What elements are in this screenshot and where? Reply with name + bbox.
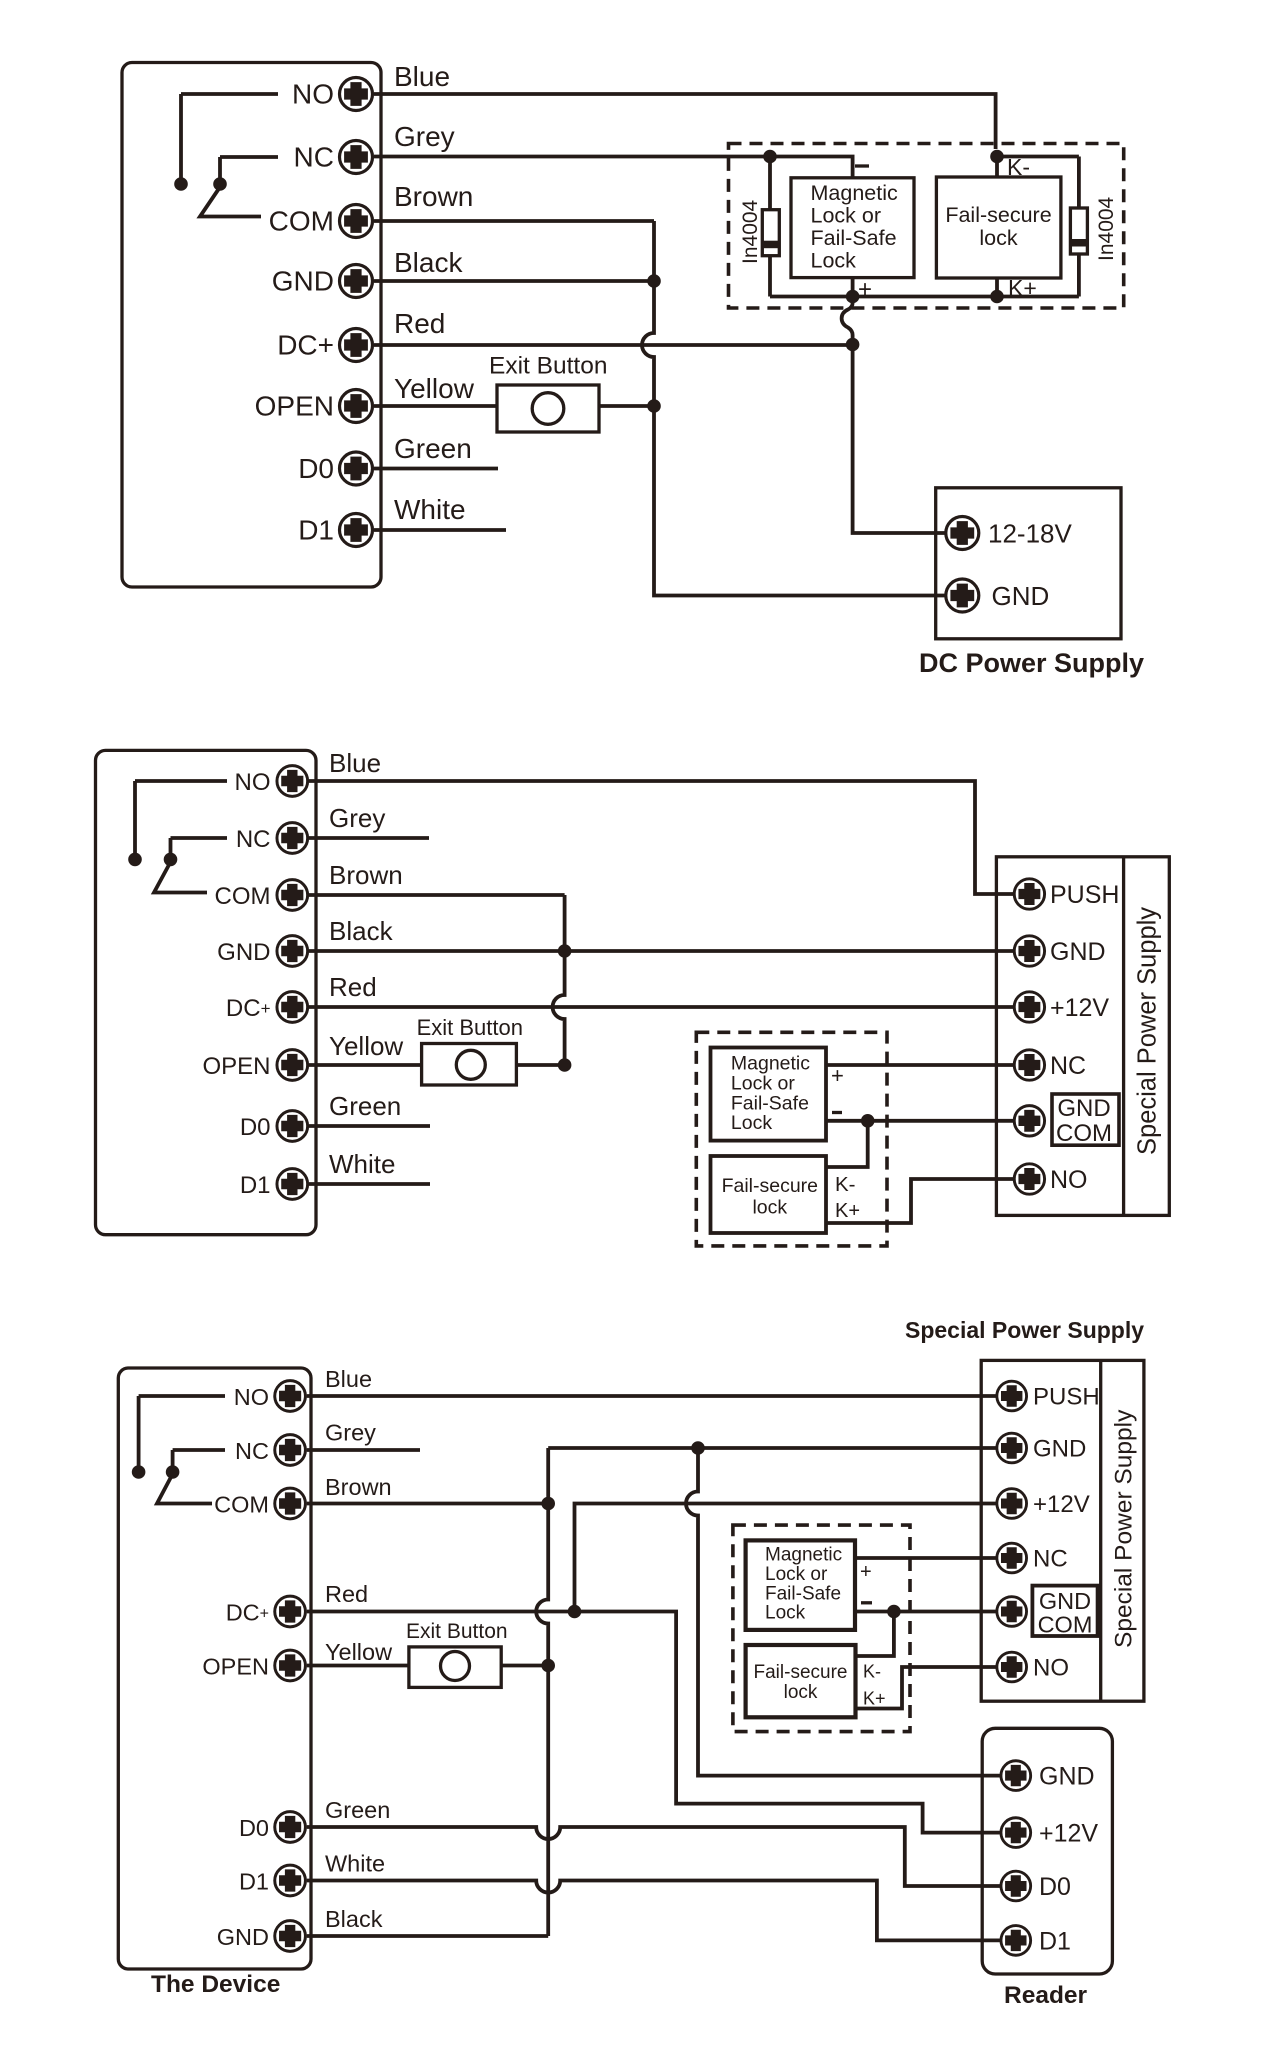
wire blue (bot NO to PUSH) (307, 1394, 997, 1398)
svg-text:Green: Green (394, 433, 472, 464)
svg-text:OPEN: OPEN (202, 1053, 270, 1080)
svg-text:Lock: Lock (731, 1112, 772, 1134)
screw GND (bot psu) (997, 1433, 1027, 1463)
svg-text:GND: GND (1039, 1763, 1095, 1791)
wire yellow (bot OPEN to exit button) (307, 1664, 409, 1668)
device box (bottom) (118, 1368, 311, 1969)
svg-text:DC Power Supply: DC Power Supply (919, 648, 1144, 678)
svg-text:D1: D1 (239, 1869, 269, 1895)
terminal OPEN (bot) (275, 1650, 306, 1681)
svg-text:COM: COM (269, 206, 334, 237)
terminal GND (bot) (275, 1921, 306, 1952)
svg-text:COM: COM (1056, 1120, 1112, 1147)
wire magnetic lock + lead (851, 278, 855, 297)
svg-text:NO: NO (292, 79, 334, 110)
wire K- node to diode2 (997, 157, 1079, 178)
wire reader gnd vertical with hop over +12V line (686, 1448, 1001, 1776)
exit button box (bot) (409, 1647, 501, 1688)
svg-text:NO: NO (234, 1384, 269, 1410)
svg-text:DC+: DC+ (277, 330, 334, 361)
diode In4004 left (762, 210, 779, 256)
svg-text:Black: Black (325, 1906, 383, 1932)
junction dot K+ (990, 290, 1004, 304)
svg-text:NC: NC (1033, 1546, 1068, 1573)
svg-text:K+: K+ (835, 1200, 860, 1222)
svg-text:Blue: Blue (325, 1366, 372, 1392)
wire squiggle plus-node to red-net (842, 297, 853, 345)
wire red branch up to +12V (bot) (575, 1504, 998, 1612)
svg-text:Lock or: Lock or (811, 204, 882, 228)
terminal DC+ (bot) (275, 1596, 306, 1627)
terminal DC+ (mid) (277, 992, 308, 1023)
svg-text:NO: NO (1050, 1166, 1088, 1194)
svg-text:Lock: Lock (811, 249, 857, 273)
junction dot exit/gnd-net (bot) (541, 1659, 555, 1673)
svg-text:Fail-secure: Fail-secure (754, 1662, 848, 1683)
svg-text:Brown: Brown (394, 181, 473, 212)
svg-text:Exit Button: Exit Button (417, 1015, 523, 1040)
svg-text:Magnetic: Magnetic (811, 181, 898, 205)
svg-text:White: White (394, 494, 466, 525)
junction dot K- (blue) (990, 150, 1004, 164)
GND/COM label box (bot) (1032, 1586, 1097, 1636)
svg-text:D1: D1 (1039, 1928, 1071, 1956)
svg-text:12-18V: 12-18V (988, 519, 1072, 549)
wire green (mid D0) (309, 1124, 430, 1128)
svg-text:GND: GND (217, 939, 270, 966)
wire blue (mid NO to PUSH) (309, 781, 1016, 894)
junction dot black/brown (mid) (558, 944, 572, 958)
wire grey (mid) (309, 836, 429, 840)
exit button circle (532, 393, 564, 425)
svg-text:PUSH: PUSH (1033, 1384, 1100, 1411)
terminal COM (340, 205, 373, 238)
svg-text:White: White (325, 1851, 385, 1877)
fail-secure text (mid) (722, 1175, 818, 1219)
svg-text:Reader: Reader (1004, 1982, 1088, 2009)
terminal OPEN (340, 390, 373, 423)
terminal D0 (mid) (277, 1111, 308, 1142)
svg-text:Special Power Supply: Special Power Supply (1111, 1409, 1138, 1648)
wire exit button to gnd-net (bot) (501, 1664, 548, 1668)
svg-text:Brown: Brown (325, 1474, 392, 1500)
svg-text:Lock: Lock (765, 1603, 806, 1624)
svg-text:NC: NC (1050, 1052, 1086, 1080)
screw NO (bot psu) (997, 1652, 1027, 1682)
svg-text:D0: D0 (239, 1815, 269, 1841)
svg-text:D0: D0 (1039, 1873, 1071, 1901)
wire red (mid DC+ to +12V) (309, 1005, 1016, 1009)
device box (middle) (96, 750, 317, 1234)
magnetic lock box (bot) (746, 1540, 855, 1630)
svg-text:White: White (329, 1149, 395, 1179)
magnetic lock text (mid) (731, 1053, 810, 1135)
svg-text:lock: lock (784, 1682, 818, 1703)
svg-text:Yellow: Yellow (394, 373, 475, 404)
terminal D0 (bot) (275, 1812, 306, 1843)
svg-text:Magnetic: Magnetic (731, 1053, 810, 1075)
svg-text:+12V: +12V (1039, 1820, 1098, 1848)
relay switch NO arm wire (mid) (135, 781, 227, 856)
GND/COM label box (mid) (1052, 1094, 1119, 1145)
special power supply (middle) (996, 857, 1169, 1216)
terminal COM (bot) (275, 1488, 306, 1519)
wire white (D1) (374, 528, 506, 532)
svg-text:Lock or: Lock or (731, 1073, 795, 1095)
svg-text:Grey: Grey (329, 803, 385, 833)
svg-text:Exit Button: Exit Button (489, 353, 607, 380)
lock assembly dashed box (middle) (696, 1032, 1016, 1246)
svg-text:NO: NO (235, 769, 271, 796)
screw NC (mid psu) (1014, 1050, 1044, 1080)
wire black (GND) (374, 279, 654, 283)
junction dot minus node (bot) (887, 1605, 901, 1619)
wire brown (COM) (374, 219, 654, 223)
svg-text:+: + (831, 1063, 844, 1088)
wire lock + to NC screw (mid) (826, 1063, 1016, 1067)
wire gnd-net vertical with hop over red (642, 221, 946, 596)
relay switch NC arm wire (220, 157, 278, 181)
screw GND (reader) (1001, 1761, 1031, 1791)
switch node NC dot (213, 177, 227, 191)
screw GND/COM (mid psu) (1014, 1106, 1044, 1136)
svg-text:lock: lock (979, 226, 1017, 250)
switch node NC dot (mid) (164, 853, 178, 867)
svg-text:Red: Red (325, 1581, 368, 1607)
svg-text:Fail-secure: Fail-secure (722, 1175, 818, 1197)
svg-text:Brown: Brown (329, 860, 403, 890)
wire lock + to NC screw (bot) (855, 1556, 997, 1560)
wire yellow (mid OPEN to exit button) (309, 1063, 422, 1067)
wire diode1 leads (768, 157, 772, 297)
wire blue (NO to K-) (374, 94, 996, 149)
terminal D1 (340, 514, 373, 547)
wire lock minus to GND/COM screw (bot) (855, 1610, 997, 1614)
svg-text:Magnetic: Magnetic (765, 1545, 842, 1566)
svg-text:K+: K+ (863, 1689, 886, 1709)
wire K- net (mid) (826, 1121, 868, 1167)
magnetic lock text (811, 181, 898, 273)
terminal OPEN (mid) (277, 1050, 308, 1081)
svg-text:Red: Red (329, 972, 377, 1002)
junction dot grey/diode/lock (763, 150, 777, 164)
wire grey (bot) (307, 1448, 420, 1452)
exit button box (mid) (422, 1044, 517, 1086)
junction dot plus node (846, 290, 860, 304)
wire red-net down to 12-18V (853, 345, 946, 534)
wire green (bot D0 to reader) with dip hop (307, 1827, 1001, 1886)
svg-text:K+: K+ (1008, 275, 1037, 301)
exit button box (497, 385, 599, 432)
switch node NO dot (bot) (132, 1465, 146, 1479)
screw D0 (reader) (1001, 1871, 1031, 1901)
wire NO screw to K+ (mid) (826, 1179, 1016, 1223)
magnetic lock text (bot) (765, 1545, 842, 1624)
relay switch NO arm wire (bot) (139, 1396, 225, 1469)
screw D1 (reader) (1001, 1926, 1031, 1956)
wire brown (bot COM) (307, 1502, 549, 1506)
svg-text:D1: D1 (240, 1172, 271, 1199)
wire white (mid D1) (309, 1182, 430, 1186)
fail-secure lock box (936, 177, 1061, 278)
screw GND (psu) (946, 579, 979, 612)
svg-text:NO: NO (1033, 1655, 1069, 1682)
svg-text:D0: D0 (240, 1114, 271, 1141)
exit button circle (bot) (441, 1652, 470, 1681)
relay switch lever (bot) (157, 1474, 212, 1504)
wire black (bot GND up the gnd-net) (307, 1934, 549, 1938)
svg-text:Grey: Grey (394, 121, 455, 152)
screw GND (mid psu) (1014, 936, 1044, 966)
svg-text:K-: K- (835, 1173, 856, 1196)
switch node NO dot (174, 177, 188, 191)
wire gnd line to psu (bot) (548, 1446, 997, 1450)
junction dot exit/gnd-net (mid) (558, 1058, 572, 1072)
svg-text:lock: lock (752, 1197, 787, 1219)
screw +12V (reader) (1001, 1818, 1031, 1848)
screw +12V (bot psu) (997, 1489, 1027, 1519)
svg-text:Lock or: Lock or (765, 1564, 828, 1585)
psu divider (mid) (1122, 857, 1125, 1216)
svg-text:+: + (858, 276, 872, 303)
screw +12V (mid psu) (1014, 992, 1044, 1022)
psu divider (bot) (1099, 1360, 1102, 1701)
svg-text:Green: Green (329, 1091, 401, 1121)
screw PUSH (bot) (997, 1381, 1027, 1411)
terminal NO (mid) (277, 766, 308, 797)
svg-text:PUSH: PUSH (1050, 881, 1119, 909)
reader box (982, 1728, 1112, 1974)
svg-text:Green: Green (325, 1797, 390, 1823)
wire red (DC+) (374, 343, 853, 347)
wire exit button to gnd-net (mid) (516, 1063, 564, 1067)
fail-secure text (945, 203, 1051, 250)
svg-text:COM: COM (1038, 1612, 1093, 1638)
svg-text:D1: D1 (298, 515, 334, 546)
magnetic lock box (791, 178, 914, 278)
svg-text:NC: NC (235, 1438, 269, 1464)
terminal NO (340, 78, 373, 111)
terminal D1 (mid) (277, 1169, 308, 1200)
svg-text:COM: COM (214, 1492, 269, 1518)
screw PUSH (mid) (1014, 879, 1044, 909)
svg-text:Yellow: Yellow (325, 1639, 393, 1665)
switch node NC dot (bot) (166, 1465, 180, 1479)
svg-text:GND: GND (1050, 938, 1106, 966)
wire green (D0) (374, 467, 498, 471)
fail-secure text (bot) (754, 1662, 848, 1703)
screw NC (bot psu) (997, 1543, 1027, 1573)
svg-text:+12V: +12V (1033, 1491, 1090, 1518)
screw 12-18V (946, 517, 979, 550)
device box (top) (122, 63, 381, 588)
svg-text:OPEN: OPEN (255, 391, 334, 422)
svg-text:Fail-Safe: Fail-Safe (811, 226, 897, 250)
svg-text:NC: NC (294, 142, 334, 173)
DC power supply box (919, 488, 1144, 678)
terminal D1 (bot) (275, 1865, 306, 1896)
magnetic lock box (mid) (711, 1048, 827, 1141)
wire gnd-net vertical with hop over red (mid) (553, 895, 565, 1065)
wire red (bot DC+) (307, 1612, 1001, 1833)
screw GND/COM (bot psu) (997, 1597, 1027, 1627)
terminal NO (bot) (275, 1381, 306, 1412)
wire minus node to magnetic lock top (770, 157, 853, 178)
junction dot black/brown (647, 274, 661, 288)
svg-text:+: + (860, 1561, 872, 1583)
relay switch NO arm wire (181, 94, 278, 181)
junction dot exit/gnd-net (647, 399, 661, 413)
wire fail-secure K+ lead (995, 278, 999, 297)
terminal COM (mid) (277, 880, 308, 911)
relay switch lever (200, 187, 261, 217)
screw NO (mid psu) (1014, 1164, 1044, 1194)
junction dot brown/gnd (bot) (541, 1497, 555, 1511)
wire diode2 leads (1077, 157, 1081, 297)
svg-text:Black: Black (329, 916, 394, 946)
junction dot red net (bot) (568, 1605, 582, 1619)
wire NO screw to K+ (bot) (856, 1667, 998, 1709)
label minus (mid) (832, 1111, 842, 1114)
wire bottom bus of lock box (770, 295, 1079, 299)
svg-text:Special Power Supply: Special Power Supply (905, 1317, 1144, 1343)
terminal GND (mid) (277, 936, 308, 967)
svg-text:Blue: Blue (394, 61, 450, 92)
lock assembly dashed box (top) (729, 144, 1124, 345)
lock assembly dashed box (bottom) (733, 1525, 997, 1732)
svg-text:D0: D0 (298, 453, 334, 484)
svg-text:Blue: Blue (329, 748, 381, 778)
terminal GND (340, 265, 373, 298)
wire brown (mid COM) (309, 893, 565, 897)
svg-text:Fail-secure: Fail-secure (945, 203, 1051, 227)
svg-text:Special Power Supply: Special Power Supply (1134, 907, 1162, 1155)
special power supply (bottom) (981, 1360, 1144, 1701)
terminal NC (340, 141, 373, 174)
label minus (bot) (861, 1601, 872, 1604)
wire K- net (bot) (856, 1612, 894, 1657)
exit button circle (mid) (456, 1050, 485, 1079)
wire grey (NC to lock minus node) (374, 155, 770, 159)
fail-secure lock box (mid) (711, 1156, 827, 1233)
relay switch lever (mid) (154, 862, 207, 893)
label minus (855, 164, 869, 167)
wire lock minus to GND/COM screw (mid) (826, 1119, 1016, 1123)
svg-text:In4004: In4004 (739, 199, 762, 264)
svg-text:+12V: +12V (1050, 994, 1109, 1022)
junction dot reader-gnd tap (691, 1441, 705, 1455)
svg-text:NC: NC (236, 826, 271, 853)
svg-text:OPEN: OPEN (202, 1654, 269, 1680)
svg-text:Grey: Grey (325, 1420, 376, 1446)
wire yellow (OPEN to exit button) (374, 404, 497, 408)
junction dot minus node (mid) (861, 1114, 875, 1128)
svg-text:Exit Button: Exit Button (406, 1620, 508, 1643)
terminal D0 (340, 452, 373, 485)
wire exit button to gnd-net (599, 404, 654, 408)
terminal NC (mid) (277, 823, 308, 854)
diode In4004 right (1070, 208, 1087, 254)
svg-text:DC+: DC+ (226, 995, 271, 1022)
wire gnd-net vertical with hop over red (bot) (536, 1448, 548, 1936)
relay switch NC arm wire (bot) (173, 1450, 225, 1469)
terminal DC+ (340, 329, 373, 362)
svg-text:GND: GND (1039, 1588, 1091, 1614)
terminal NC (bot) (275, 1435, 306, 1466)
svg-text:K-: K- (863, 1662, 881, 1682)
svg-text:COM: COM (215, 883, 271, 910)
svg-text:GND: GND (992, 581, 1050, 611)
switch node NO dot (mid) (128, 853, 142, 867)
wire white (bot D1 to reader) with dip hop (307, 1881, 1001, 1941)
svg-text:GND: GND (272, 266, 334, 297)
svg-text:GND: GND (1033, 1436, 1086, 1463)
svg-text:GND: GND (217, 1924, 269, 1950)
svg-text:Red: Red (394, 308, 445, 339)
svg-text:Yellow: Yellow (329, 1031, 403, 1061)
junction dot red net (846, 338, 860, 352)
relay switch NC arm wire (mid) (171, 838, 228, 856)
svg-text:Black: Black (394, 247, 463, 278)
fail-secure lock box (bot) (746, 1645, 856, 1717)
svg-text:DC+: DC+ (226, 1600, 269, 1626)
svg-text:In4004: In4004 (1095, 196, 1118, 261)
svg-text:Fail-Safe: Fail-Safe (765, 1584, 841, 1605)
svg-text:GND: GND (1057, 1095, 1110, 1122)
svg-text:The Device: The Device (151, 1971, 280, 1998)
wire black (mid GND to psu) (309, 949, 1016, 953)
